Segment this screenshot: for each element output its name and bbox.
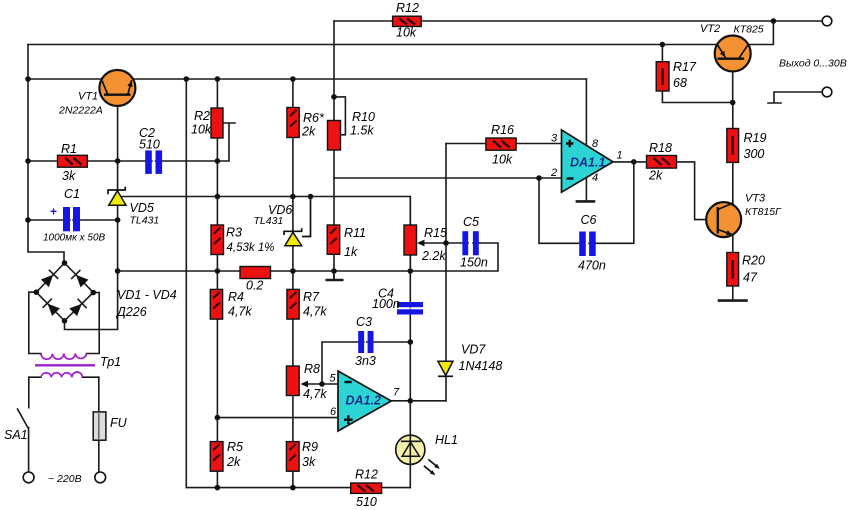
svg-text:+: +	[50, 205, 57, 219]
svg-text:300: 300	[744, 147, 765, 161]
svg-text:VT2: VT2	[700, 23, 720, 35]
svg-text:4,7k: 4,7k	[303, 305, 327, 319]
svg-text:VD5: VD5	[130, 201, 154, 215]
svg-text:0.2: 0.2	[246, 279, 263, 293]
svg-text:R10: R10	[352, 110, 375, 124]
svg-text:VD7: VD7	[461, 343, 486, 357]
svg-text:R3: R3	[226, 226, 242, 240]
svg-text:R8: R8	[304, 362, 320, 376]
svg-text:8: 8	[592, 138, 599, 150]
svg-text:3k: 3k	[302, 455, 316, 469]
svg-text:3: 3	[551, 133, 558, 145]
svg-text:R5: R5	[227, 440, 243, 454]
svg-text:R17: R17	[673, 60, 697, 74]
svg-text:R15: R15	[424, 226, 447, 240]
svg-text:1N4148: 1N4148	[459, 359, 503, 373]
svg-text:510: 510	[356, 495, 377, 509]
svg-text:2k: 2k	[301, 125, 316, 139]
svg-text:TL431: TL431	[254, 215, 284, 227]
svg-text:2N2222A: 2N2222A	[58, 105, 103, 117]
svg-text:R6*: R6*	[303, 111, 325, 125]
svg-text:HL1: HL1	[435, 433, 458, 447]
svg-text:100n: 100n	[372, 297, 400, 311]
svg-text:FU: FU	[110, 416, 128, 430]
svg-text:4: 4	[592, 172, 598, 184]
svg-text:4,53k 1%: 4,53k 1%	[227, 242, 275, 254]
svg-text:R18: R18	[649, 141, 672, 155]
svg-text:C5: C5	[463, 215, 479, 229]
svg-text:3k: 3k	[62, 169, 76, 183]
svg-text:C3: C3	[356, 315, 372, 329]
svg-text:10k: 10k	[492, 153, 513, 167]
svg-text:R1: R1	[61, 142, 77, 156]
svg-text:Тр1: Тр1	[100, 355, 121, 369]
svg-text:R9: R9	[302, 440, 318, 454]
svg-text:R11: R11	[344, 226, 366, 240]
svg-text:C6: C6	[581, 213, 597, 227]
svg-text:2.2k: 2.2k	[421, 249, 446, 263]
svg-text:VD1 - VD4: VD1 - VD4	[117, 288, 177, 302]
svg-text:R2: R2	[194, 109, 210, 123]
svg-text:4,7k: 4,7k	[228, 305, 252, 319]
svg-text:2k: 2k	[648, 169, 663, 183]
svg-text:КТ815Г: КТ815Г	[745, 206, 782, 218]
svg-text:R19: R19	[744, 131, 767, 145]
svg-text:TL431: TL431	[130, 215, 160, 227]
svg-text:7: 7	[393, 387, 400, 399]
svg-text:1k: 1k	[344, 245, 358, 259]
svg-text:VT1: VT1	[78, 91, 98, 103]
svg-text:1000мк x 50В: 1000мк x 50В	[43, 233, 106, 244]
svg-text:R20: R20	[742, 254, 765, 268]
svg-text:DA1.1: DA1.1	[570, 156, 605, 170]
svg-text:VT3: VT3	[745, 193, 766, 205]
svg-text:~ 220В: ~ 220В	[48, 473, 82, 485]
svg-text:R7: R7	[303, 290, 320, 304]
svg-text:6: 6	[330, 406, 337, 418]
svg-text:10k: 10k	[396, 26, 417, 40]
svg-text:1: 1	[617, 150, 623, 162]
svg-text:2k: 2k	[226, 455, 241, 469]
svg-text:10k: 10k	[191, 123, 212, 137]
svg-text:2: 2	[550, 167, 557, 179]
svg-text:3n3: 3n3	[355, 354, 376, 368]
svg-text:R12: R12	[396, 1, 419, 15]
svg-text:150n: 150n	[460, 256, 488, 270]
svg-text:1.5k: 1.5k	[350, 124, 374, 138]
svg-text:R4: R4	[228, 290, 244, 304]
svg-text:R12: R12	[355, 468, 378, 482]
svg-text:Выход 0...30В: Выход 0...30В	[779, 58, 847, 70]
svg-text:68: 68	[673, 76, 687, 90]
svg-text:R16: R16	[491, 123, 514, 137]
svg-text:КТ825: КТ825	[734, 24, 764, 36]
svg-text:DA1.2: DA1.2	[346, 394, 381, 408]
svg-text:Д226: Д226	[115, 305, 147, 319]
svg-text:510: 510	[139, 138, 160, 152]
svg-text:47: 47	[743, 271, 758, 285]
svg-text:470n: 470n	[578, 259, 606, 273]
svg-text:4,7k: 4,7k	[303, 387, 327, 401]
svg-text:SA1: SA1	[4, 428, 28, 442]
svg-text:C1: C1	[64, 187, 80, 201]
svg-text:5: 5	[330, 373, 337, 385]
